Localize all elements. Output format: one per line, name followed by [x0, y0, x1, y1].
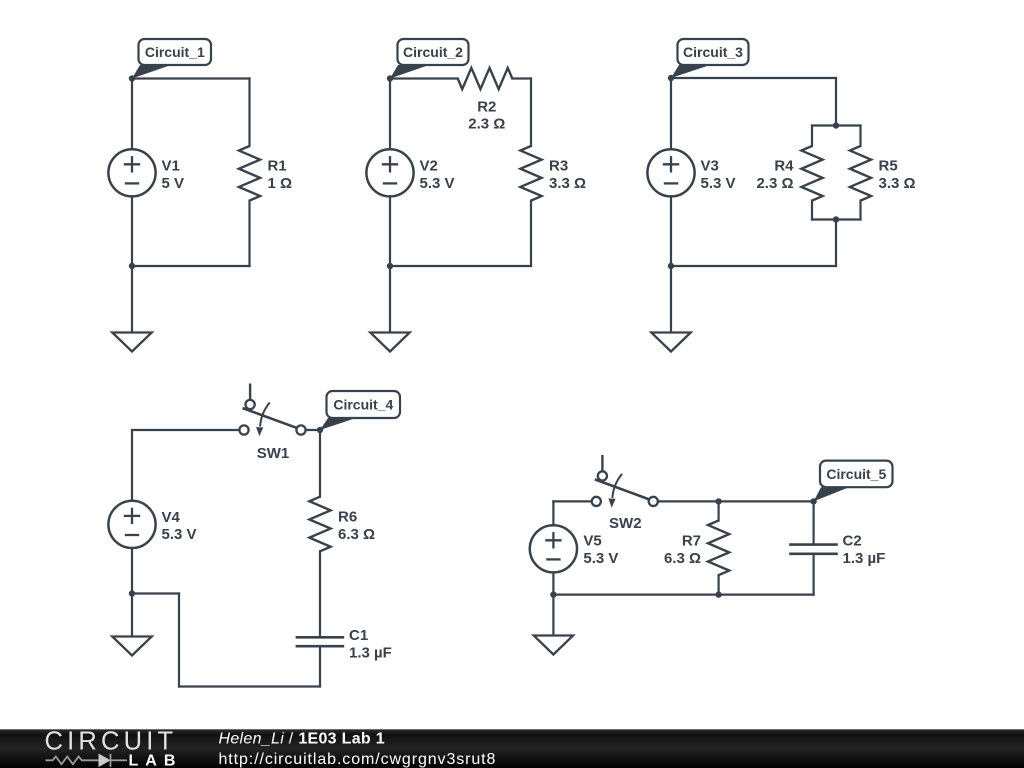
wire R5 top lead	[859, 126, 861, 147]
wire C1 bottom lead	[319, 646, 321, 686]
wire node to R6	[319, 430, 321, 497]
wire V4 bottom to node	[131, 548, 133, 594]
wire switch to C2 corner	[658, 500, 814, 502]
node bottom-left circuit 4	[129, 590, 135, 596]
wire bottom left riser	[178, 594, 180, 687]
svg-text:Circuit_4: Circuit_4	[333, 397, 393, 413]
net label Circuit_5	[814, 461, 893, 502]
svg-text:C1: C1	[349, 627, 368, 644]
svg-text:5.3 V: 5.3 V	[701, 175, 736, 192]
svg-text:5.3 V: 5.3 V	[162, 526, 197, 543]
ground circuit 1	[112, 333, 151, 352]
wire to ground circuit 5	[552, 595, 554, 636]
svg-text:CIRCUIT: CIRCUIT	[45, 728, 178, 756]
svg-text:R1: R1	[268, 157, 287, 174]
svg-text:LAB: LAB	[129, 753, 183, 768]
wire R7 bottom lead	[717, 575, 719, 595]
node bottom-left circuit 5	[550, 591, 556, 597]
voltage source V3	[647, 149, 735, 196]
svg-text:R5: R5	[879, 157, 898, 174]
svg-text:5 V: 5 V	[162, 175, 185, 192]
wire V3 bottom to node	[670, 196, 672, 266]
wire parallel bottom bar	[812, 218, 861, 220]
wire R1 bottom lead	[248, 201, 250, 266]
svg-text:R6: R6	[338, 508, 357, 525]
ground circuit 3	[651, 333, 690, 352]
wire parallel top bar	[812, 124, 861, 126]
voltage source V2	[366, 149, 454, 196]
wire V1 bottom to node	[131, 196, 133, 266]
wire right rail top lead R1	[248, 79, 250, 147]
svg-text:1.3 µF: 1.3 µF	[843, 550, 886, 567]
wire R3 bottom lead	[530, 201, 532, 266]
svg-text:V4: V4	[162, 509, 181, 526]
svg-text:Helen_Li / 1E03 Lab 1: Helen_Li / 1E03 Lab 1	[219, 731, 385, 748]
wire C2 top lead	[812, 501, 814, 544]
svg-text:R4: R4	[774, 157, 794, 174]
svg-text:1 Ω: 1 Ω	[268, 175, 293, 192]
wire bottom of circuit 2	[390, 265, 531, 267]
wire left top to V2	[389, 79, 391, 150]
wire to ground circuit 4	[131, 594, 133, 637]
wire bottom of circuit 1	[132, 265, 250, 267]
wire V5 bottom to node	[552, 572, 554, 594]
svg-text:R2: R2	[477, 98, 496, 115]
svg-text:3.3 Ω: 3.3 Ω	[549, 175, 586, 192]
svg-text:5.3 V: 5.3 V	[583, 550, 618, 567]
resistor R5	[850, 146, 916, 201]
wire top of circuit 4	[132, 429, 239, 431]
logo resistor-diode squiggle	[46, 754, 128, 767]
svg-text:Circuit_5: Circuit_5	[826, 466, 886, 482]
wire R5 bottom lead	[859, 201, 861, 220]
node C2 top	[810, 498, 816, 504]
wire R4 top lead	[811, 126, 813, 147]
ground circuit 4	[112, 637, 151, 656]
wire left top to V3	[670, 78, 672, 149]
svg-text:6.3 Ω: 6.3 Ω	[338, 526, 375, 543]
resistor R7	[664, 521, 729, 576]
net label Circuit_2	[390, 39, 469, 79]
svg-text:2.3 Ω: 2.3 Ω	[468, 115, 505, 132]
wire top of circuit 5	[553, 500, 591, 502]
logo diode triangle	[99, 754, 111, 768]
wire V5 top to corner	[552, 501, 554, 525]
wire R6 to C1	[319, 551, 321, 637]
resistor R2	[458, 68, 513, 132]
wire C2 bottom lead	[812, 554, 814, 595]
switch SW1	[239, 384, 305, 463]
wire bottom of circuit 5	[553, 593, 813, 595]
node parallel top junction	[833, 122, 839, 128]
svg-text:3.3 Ω: 3.3 Ω	[879, 175, 916, 192]
svg-text:SW1: SW1	[257, 445, 290, 462]
wire bottom of circuit 3	[671, 265, 836, 267]
wire top-left to R2	[390, 77, 458, 79]
net label Circuit_1	[132, 39, 211, 79]
node R7 top	[715, 498, 721, 504]
wire right rail top lead R3	[530, 79, 532, 147]
wire V4 top to corner	[131, 430, 133, 501]
svg-text:Circuit_3: Circuit_3	[683, 44, 743, 60]
wire to ground circuit 3	[670, 266, 672, 333]
switch SW2	[592, 455, 658, 532]
resistor R4	[756, 146, 822, 201]
svg-text:Circuit_2: Circuit_2	[403, 44, 463, 60]
node bottom-left circuit 3	[668, 263, 674, 269]
net label Circuit_4	[320, 391, 400, 430]
svg-text:R7: R7	[682, 533, 701, 550]
wire to ground circuit 2	[389, 266, 391, 333]
voltage source V4	[108, 501, 196, 548]
wire top of circuit 1	[132, 77, 250, 79]
svg-text:V1: V1	[162, 157, 180, 174]
wire down to parallel junction	[835, 78, 837, 126]
svg-text:R3: R3	[549, 157, 568, 174]
wire riser to node	[132, 592, 179, 594]
node top-right circuit 4	[317, 427, 323, 433]
wire to ground circuit 1	[131, 266, 133, 333]
svg-text:6.3 Ω: 6.3 Ω	[664, 550, 701, 567]
wire bottom of circuit 4	[179, 685, 320, 687]
svg-text:C2: C2	[843, 533, 862, 550]
capacitor C1	[296, 627, 392, 661]
resistor R1	[239, 146, 292, 201]
resistor R3	[520, 146, 586, 201]
node parallel bottom junction	[833, 216, 839, 222]
svg-text:http://circuitlab.com/cwgrgnv3: http://circuitlab.com/cwgrgnv3srut8	[219, 751, 497, 768]
resistor R6	[309, 497, 375, 552]
ground circuit 2	[370, 333, 409, 352]
wire switch to node	[306, 429, 320, 431]
wire R4 bottom lead	[811, 201, 813, 220]
svg-text:V5: V5	[583, 533, 601, 550]
wire top of circuit 3	[671, 77, 836, 79]
wire left top to V1	[131, 79, 133, 150]
wire R2 to corner	[512, 77, 531, 79]
svg-text:5.3 V: 5.3 V	[420, 175, 455, 192]
svg-text:V3: V3	[701, 157, 719, 174]
wire R7 top lead	[717, 501, 719, 520]
voltage source V1	[108, 149, 184, 196]
node top-left circuit 3	[668, 75, 674, 81]
capacitor C2	[789, 533, 885, 567]
net label Circuit_3	[671, 39, 749, 78]
svg-text:2.3 Ω: 2.3 Ω	[756, 175, 793, 192]
svg-text:Circuit_1: Circuit_1	[145, 44, 205, 60]
node top-left circuit 2	[387, 75, 393, 81]
node R7 bottom	[715, 591, 721, 597]
voltage source V5	[530, 525, 619, 572]
wire V2 bottom to node	[389, 196, 391, 266]
ground circuit 5	[534, 636, 573, 655]
footer bar	[0, 729, 1024, 768]
node top-left circuit 1	[129, 75, 135, 81]
svg-text:1.3 µF: 1.3 µF	[349, 644, 392, 661]
wire junction down to bottom	[835, 220, 837, 267]
svg-text:SW2: SW2	[609, 515, 642, 532]
svg-text:V2: V2	[420, 157, 438, 174]
node bottom-left circuit 1	[129, 263, 135, 269]
node bottom-left circuit 2	[387, 263, 393, 269]
